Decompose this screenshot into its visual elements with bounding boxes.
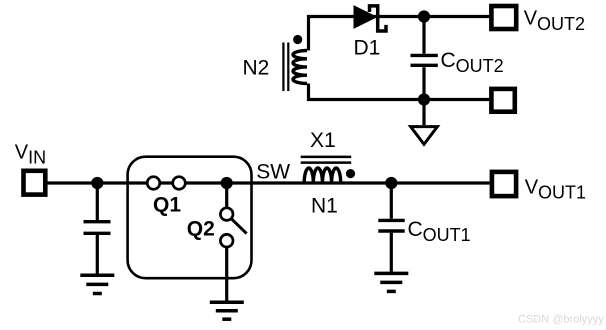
terminal VOUT2: [491, 6, 516, 29]
node junction dot COUT1: [385, 177, 397, 189]
ground COUT1: [374, 273, 408, 291]
coupled inductor core (two horizontal lines): [301, 157, 352, 163]
ground (open triangle): [411, 100, 438, 145]
transformer secondary winding N2: [293, 51, 307, 84]
main wire VIN to VOUT1: [48, 181, 490, 184]
node junction dot input: [91, 177, 103, 189]
ground input cap: [80, 275, 114, 293]
diode D1 (Schottky): [354, 6, 386, 31]
node junction dot top: [418, 10, 430, 22]
terminal VOUT1: [492, 172, 516, 196]
capacitor COUT2: [411, 17, 438, 100]
wire top loop upper: from N2 top to VOUT2 terminal: [309, 17, 490, 51]
polarity dot N2: [293, 35, 302, 44]
terminal VIN: [24, 171, 46, 195]
svg-text:X1: X1: [310, 129, 336, 152]
input capacitor: [84, 183, 111, 274]
capacitor COUT1: [378, 183, 404, 272]
node junction dot bottom: [418, 93, 430, 105]
switch Q1 (two circles on wire): [147, 177, 185, 190]
wire top loop lower: from N2 bottom to return terminal: [309, 84, 490, 100]
terminal VOUT2 return: [491, 89, 514, 112]
svg-text:N1: N1: [311, 194, 338, 217]
switch Q2 (vertical, open blade): [220, 183, 246, 301]
svg-text:CSDN @brolyyyy: CSDN @brolyyyy: [518, 314, 604, 326]
transformer core (vertical lines): [283, 43, 288, 92]
svg-text:Q2: Q2: [187, 218, 215, 241]
svg-text:Q1: Q1: [153, 194, 181, 217]
svg-text:SW: SW: [256, 160, 290, 183]
inductor winding N1: [304, 168, 340, 183]
node junction dot SW internal: [221, 177, 233, 189]
svg-text:D1: D1: [354, 37, 381, 60]
svg-text:N2: N2: [243, 57, 270, 80]
ground Q2: [210, 302, 244, 319]
IC switch block (rounded box): [128, 157, 252, 279]
polarity dot N1: [346, 169, 355, 178]
